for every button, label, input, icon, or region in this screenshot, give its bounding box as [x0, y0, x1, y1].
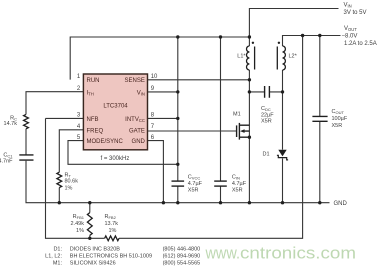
wire pin6 GND down: [148, 141, 164, 203]
junction VOUT rail - COUT branch: [318, 34, 321, 37]
wire INTVCC bus: [177, 37, 179, 181]
junction GND rail - pin 6 GND: [162, 201, 165, 204]
svg-text:L2*: L2*: [289, 54, 298, 60]
svg-text:L1*: L1*: [237, 54, 246, 60]
transistor M1 Si9426 MOSFET: [237, 123, 250, 140]
junction VOUT rail - feedback tap: [301, 34, 304, 37]
inductor L2: [283, 46, 286, 70]
svg-text:SENSE: SENSE: [125, 78, 145, 84]
junction CDC right - L2 bottom: [281, 90, 284, 93]
svg-text:3V to 5V: 3V to 5V: [344, 10, 367, 16]
junction GND rail - CIN: [219, 201, 222, 204]
capacitor CIN 4.7uF X5R: [214, 180, 227, 182]
svg-text:X5R: X5R: [261, 119, 272, 125]
op-amp U1 LTC3704 IC body: [83, 74, 147, 150]
wire pin7 GATE: [148, 130, 237, 132]
svg-text:4.7nF: 4.7nF: [0, 159, 13, 165]
wire VOUT rail: [283, 36, 341, 47]
node switch bus (L1-M1 branch): [248, 37, 250, 46]
diode D1 B320B schottky: [278, 150, 286, 157]
junction VIN rail - INTVCC bus: [176, 35, 179, 38]
wire CDC row: [249, 91, 282, 93]
svg-text:MODE/SYNC: MODE/SYNC: [87, 139, 124, 145]
svg-text:RFB2: RFB2: [105, 214, 117, 220]
wire CVCC to GND: [177, 186, 179, 203]
svg-text:4.7µF: 4.7µF: [232, 181, 247, 187]
resistor RT 80.6k 1%: [57, 172, 62, 187]
svg-text:1%: 1%: [76, 228, 84, 234]
svg-text:22µF: 22µF: [261, 112, 274, 118]
svg-text:X5R: X5R: [332, 123, 343, 129]
junction pin 9 VIN - bus: [176, 90, 179, 93]
svg-text:VIN: VIN: [137, 90, 145, 96]
svg-text:RT: RT: [65, 172, 72, 178]
svg-text:M1: M1: [233, 112, 241, 118]
svg-text:13.7k: 13.7k: [105, 221, 119, 227]
wire pin3 NFB stub: [46, 117, 84, 119]
wire GND rail: [26, 161, 330, 203]
wire COUT branch: [319, 36, 321, 203]
svg-text:CDC: CDC: [261, 106, 271, 112]
wire L2 down to D1: [282, 70, 284, 150]
svg-text:14.7k: 14.7k: [4, 121, 18, 127]
svg-text:GATE: GATE: [129, 128, 145, 134]
svg-text:CVCC: CVCC: [188, 174, 201, 180]
junction GND rail - M1 source: [248, 201, 251, 204]
wire pin9 VIN: [148, 91, 178, 93]
svg-text:NFB: NFB: [87, 117, 99, 123]
capacitor CVCC 4.7uF X5R: [172, 180, 185, 182]
svg-text:GND: GND: [334, 201, 348, 207]
svg-text:www.cntronics.com: www.cntronics.com: [205, 244, 356, 263]
svg-text:RFB1: RFB1: [73, 214, 85, 220]
svg-text:f = 300kHz: f = 300kHz: [101, 156, 130, 162]
svg-text:BH ELECTRONICS BH 510-1009: BH ELECTRONICS BH 510-1009: [70, 254, 152, 260]
svg-text:−8.0V: −8.0V: [342, 33, 358, 39]
wire D1 to GND rail: [282, 158, 284, 202]
svg-text:(800) 554-5565: (800) 554-5565: [163, 261, 201, 267]
svg-text:80.6k: 80.6k: [65, 179, 79, 185]
svg-text:CC1: CC1: [3, 152, 13, 158]
capacitor COUT 100uF X5R: [312, 116, 327, 121]
svg-text:X5R: X5R: [188, 187, 199, 193]
svg-text:DIODES INC B320B: DIODES INC B320B: [70, 247, 120, 253]
junction M1 source: [248, 136, 251, 139]
svg-text:1%: 1%: [109, 228, 117, 234]
svg-text:VIN: VIN: [344, 3, 352, 9]
svg-text:GND: GND: [132, 139, 146, 145]
svg-text:VOUT: VOUT: [344, 26, 357, 32]
svg-text:COUT: COUT: [332, 109, 345, 115]
svg-text:100µF: 100µF: [332, 116, 348, 122]
svg-text:M1:: M1:: [53, 261, 63, 267]
junction VIN rail - CIN branch: [219, 35, 222, 38]
svg-text:INTVCC: INTVCC: [125, 117, 145, 123]
svg-text:L1, L2:: L1, L2:: [45, 254, 62, 260]
wire pin8 INTVCC: [148, 117, 178, 119]
reference table D1/L1L2/M1: [45, 247, 200, 267]
resistor RFB1 2.49k 1%: [87, 213, 92, 236]
junction GND rail - D1 cathode: [281, 201, 284, 204]
svg-text:ITH: ITH: [87, 90, 94, 96]
resistor RC 14.7k: [24, 114, 29, 128]
svg-text:1.2A to 2.5A: 1.2A to 2.5A: [344, 41, 377, 47]
svg-text:RUN: RUN: [87, 78, 100, 84]
svg-text:X5R: X5R: [232, 187, 243, 193]
wire VIN mid rail: [70, 37, 249, 80]
svg-text:D1:: D1:: [53, 247, 62, 253]
inductor L1: [246, 46, 249, 70]
wire pin5 MODE/SYNC loop: [68, 141, 178, 165]
wire L1 to M1/GND: [248, 70, 250, 203]
svg-text:(612) 894-9690: (612) 894-9690: [163, 254, 201, 260]
junction GND rail - RT: [58, 201, 61, 204]
junction VIN rail - L1 top: [248, 35, 251, 38]
junction GND rail - RFB1: [88, 201, 91, 204]
wire NFB vertical: [46, 118, 105, 238]
wire VIN top rail: [249, 9, 338, 38]
svg-text:LTC3704: LTC3704: [103, 104, 128, 110]
junction MODE/SYNC loop - CVCC top: [176, 163, 179, 166]
wire pin10 SENSE: [148, 79, 250, 81]
wire feedback VOUT tap: [119, 36, 303, 239]
svg-text:4.7µF: 4.7µF: [188, 181, 203, 187]
junction GND rail - COUT: [318, 201, 321, 204]
wire RFB1 branch: [89, 203, 91, 239]
wire CIN branch: [220, 37, 222, 203]
resistor RFB2 13.7k 1%: [105, 236, 119, 241]
svg-text:10: 10: [151, 74, 158, 80]
junction CDC left - switch node: [248, 90, 251, 93]
wire pin4 FREQ to RT: [59, 130, 83, 172]
junction pin 8 INTVCC - bus: [176, 117, 179, 120]
junction SENSE - switch node: [248, 78, 251, 81]
svg-text:2.49k: 2.49k: [71, 221, 85, 227]
svg-text:CIN: CIN: [232, 174, 240, 180]
wire pin2 ITH to RC: [26, 92, 83, 115]
capacitor CDC 22uF X5R: [265, 86, 270, 98]
wire RT to GND rail: [58, 188, 60, 203]
capacitor CC1 4.7nF: [19, 155, 33, 160]
wire RC to CC1: [25, 129, 27, 155]
svg-text:1%: 1%: [65, 186, 73, 192]
svg-text:(805) 446-4800: (805) 446-4800: [163, 247, 201, 253]
junction GND rail - CVCC: [176, 201, 179, 204]
node NFB - RFB1/RFB2 junction: [88, 237, 91, 240]
svg-text:FREQ: FREQ: [87, 128, 104, 134]
svg-text:D1: D1: [262, 151, 269, 157]
svg-text:SILICONIX Si9426: SILICONIX Si9426: [70, 261, 116, 267]
